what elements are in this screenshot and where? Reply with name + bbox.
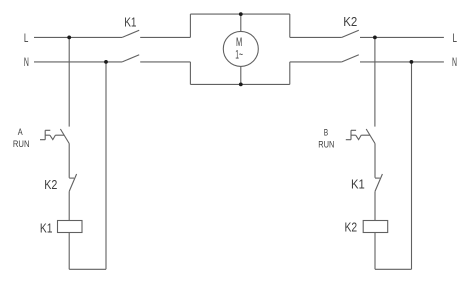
svg-text:K1: K1 bbox=[40, 220, 53, 235]
wire N-right from motor box to contact K2 bbox=[290, 61, 342, 63]
svg-text:1~: 1~ bbox=[235, 47, 243, 61]
pushbutton A RUN actuator bbox=[40, 130, 64, 139]
junction dot L-left branch bbox=[67, 36, 71, 40]
svg-text:RUN: RUN bbox=[13, 139, 30, 149]
contact K1 NC fixed tick bbox=[375, 177, 380, 179]
wire below coil K2 bbox=[374, 233, 376, 270]
coil K1 bbox=[58, 221, 83, 233]
wire L-right from contact K2 to terminal bbox=[360, 36, 444, 38]
wire N-right from contact K2 to terminal bbox=[360, 61, 444, 63]
wire right branch return to N bbox=[411, 62, 413, 269]
contact K2 NC fixed tick bbox=[69, 177, 74, 179]
svg-text:K1: K1 bbox=[351, 177, 365, 192]
wire N-left from contact K1 to motor box bbox=[140, 61, 190, 63]
contact K1 NC blade bbox=[375, 174, 382, 191]
wire motor box top rail bbox=[190, 13, 289, 15]
pushbutton A RUN contact blade bbox=[60, 129, 69, 144]
wire N-left from terminal to contact K1 bbox=[34, 61, 122, 63]
wire motor feed top bbox=[240, 14, 242, 31]
junction dot L-right branch bbox=[373, 36, 377, 40]
svg-text:K2: K2 bbox=[343, 14, 357, 29]
svg-text:K2: K2 bbox=[345, 219, 358, 234]
junction dot motor bottom bbox=[239, 83, 243, 87]
wire motor box bottom rail bbox=[190, 83, 289, 85]
wire motor box right edge lower bbox=[289, 62, 291, 85]
svg-text:K2: K2 bbox=[44, 177, 57, 192]
wire between pushbutton B and contact K1 bbox=[374, 144, 376, 178]
svg-text:B: B bbox=[324, 127, 328, 137]
wire motor box left edge lower bbox=[189, 62, 191, 85]
wire L-left from terminal to contact K1 bbox=[34, 36, 122, 38]
contact K1 pole1 blade (L line) bbox=[122, 30, 139, 37]
wire left control branch from L junction to pushbutton A bbox=[68, 37, 70, 126]
pushbutton B RUN actuator bbox=[346, 130, 370, 139]
wire between contact K1 and coil K2 bbox=[374, 191, 376, 220]
contact K2 NC blade bbox=[69, 174, 76, 191]
svg-text:L: L bbox=[453, 33, 458, 45]
wire between pushbutton A and contact K2 bbox=[68, 144, 70, 178]
svg-text:N: N bbox=[24, 57, 29, 69]
wire L-right from motor box to contact K2 bbox=[290, 36, 342, 38]
wire between contact K2 and coil K1 bbox=[68, 191, 70, 220]
wire left branch return to N bbox=[105, 62, 107, 269]
junction dot motor top bbox=[239, 12, 243, 16]
pushbutton B RUN contact blade bbox=[366, 129, 375, 144]
contact K2 pole2 blade (N line) bbox=[342, 55, 359, 62]
wire left branch bottom return bbox=[69, 268, 106, 270]
wire motor box right edge upper bbox=[289, 14, 291, 37]
wire motor box left edge upper bbox=[189, 14, 191, 37]
wire right branch bottom return bbox=[375, 268, 412, 270]
wire below coil K1 bbox=[68, 233, 70, 270]
motor M circle bbox=[223, 31, 258, 66]
svg-text:RUN: RUN bbox=[318, 139, 334, 149]
wire right control branch from L junction to pushbutton B bbox=[374, 37, 376, 126]
junction dot N-left return bbox=[104, 60, 108, 64]
wire L-left from contact K1 to motor box bbox=[140, 36, 190, 38]
contact K1 pole2 blade (N line) bbox=[122, 55, 139, 62]
wire motor feed bottom bbox=[240, 66, 242, 84]
svg-text:K1: K1 bbox=[124, 14, 136, 29]
svg-text:L: L bbox=[24, 33, 29, 45]
coil K2 bbox=[363, 221, 388, 233]
svg-text:A: A bbox=[18, 127, 23, 137]
junction dot N-right return bbox=[410, 60, 414, 64]
svg-text:N: N bbox=[452, 57, 457, 69]
contact K2 pole1 blade (L line) bbox=[342, 30, 359, 37]
